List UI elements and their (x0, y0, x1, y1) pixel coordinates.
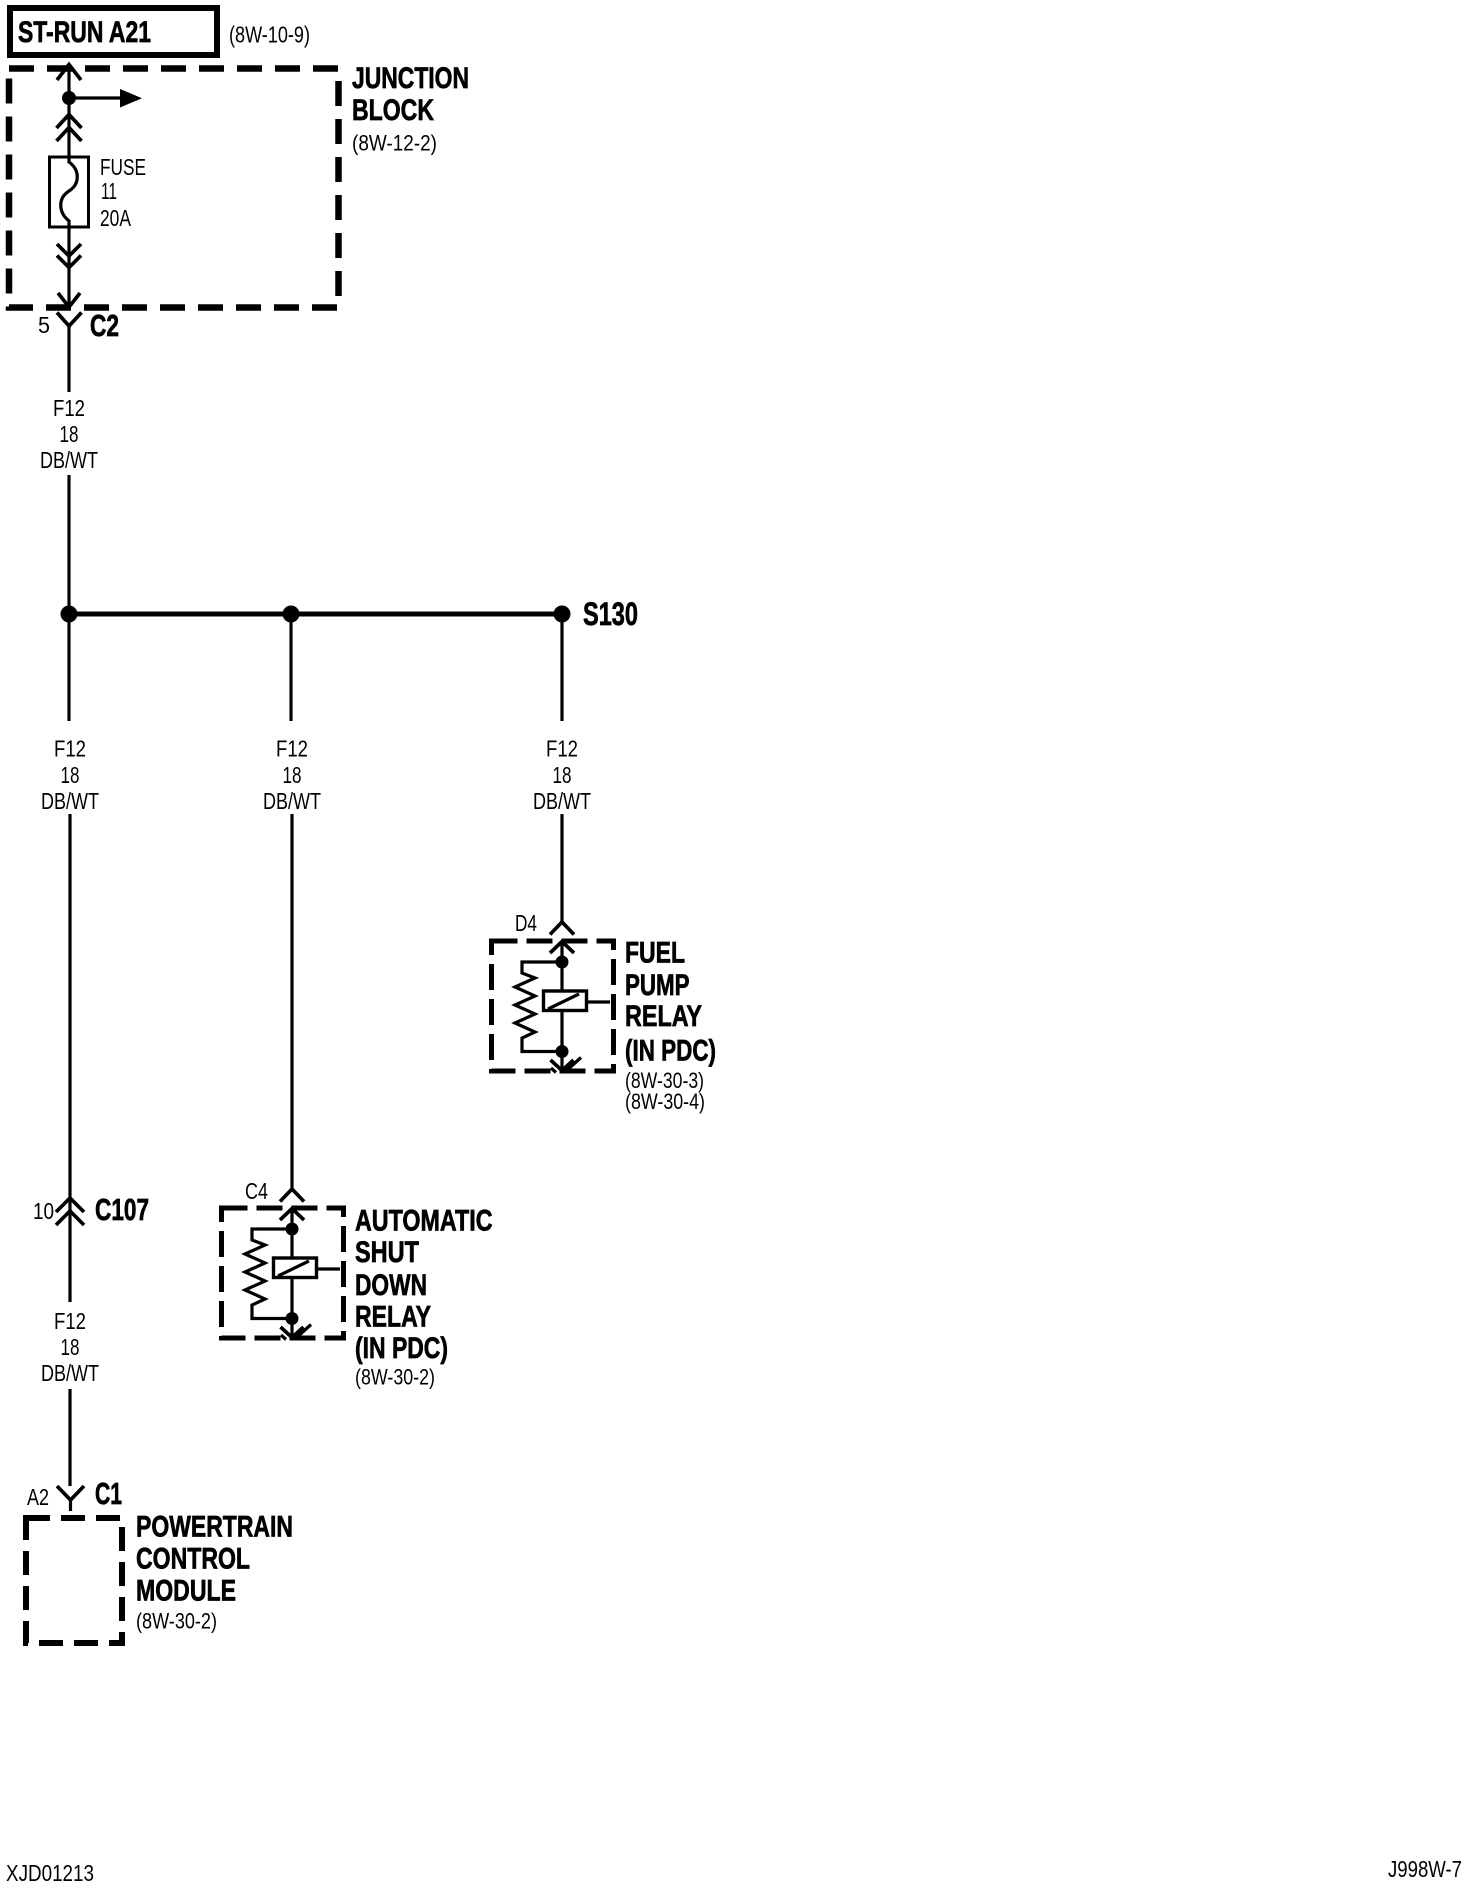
svg-text:(8W-30-2): (8W-30-2) (355, 1365, 435, 1390)
svg-text:F12: F12 (53, 395, 85, 421)
svg-text:DB/WT: DB/WT (40, 447, 98, 473)
svg-text:XJD01213: XJD01213 (6, 1860, 94, 1886)
svg-text:CONTROL: CONTROL (136, 1543, 250, 1576)
svg-text:DB/WT: DB/WT (533, 788, 591, 814)
svg-text:(8W-10-9): (8W-10-9) (229, 22, 310, 48)
svg-text:F12: F12 (54, 1308, 86, 1334)
svg-text:C1: C1 (95, 1476, 122, 1511)
svg-text:MODULE: MODULE (136, 1575, 236, 1608)
svg-text:C4: C4 (245, 1178, 268, 1204)
svg-text:J998W-7: J998W-7 (1388, 1856, 1462, 1882)
svg-text:AUTOMATIC: AUTOMATIC (355, 1205, 493, 1238)
svg-text:SHUT: SHUT (355, 1236, 419, 1269)
svg-text:11: 11 (101, 178, 117, 204)
svg-text:RELAY: RELAY (625, 1000, 702, 1033)
svg-text:F12: F12 (54, 736, 86, 762)
svg-text:18: 18 (60, 421, 79, 447)
svg-text:(8W-30-4): (8W-30-4) (625, 1089, 705, 1114)
svg-text:20A: 20A (100, 205, 131, 231)
svg-text:(8W-12-2): (8W-12-2) (352, 131, 437, 156)
svg-text:(IN PDC): (IN PDC) (355, 1332, 448, 1365)
svg-text:D4: D4 (515, 910, 537, 936)
svg-text:RELAY: RELAY (355, 1301, 431, 1334)
svg-text:C107: C107 (95, 1192, 149, 1227)
svg-text:JUNCTION: JUNCTION (352, 62, 469, 95)
svg-text:F12: F12 (276, 736, 308, 762)
svg-text:DOWN: DOWN (355, 1269, 427, 1302)
svg-text:C2: C2 (90, 308, 119, 343)
svg-text:5: 5 (38, 312, 50, 338)
svg-text:(8W-30-2): (8W-30-2) (136, 1609, 217, 1634)
svg-text:DB/WT: DB/WT (263, 788, 321, 814)
svg-text:DB/WT: DB/WT (41, 1360, 99, 1386)
svg-text:FUEL: FUEL (625, 937, 685, 970)
svg-text:18: 18 (553, 762, 572, 788)
svg-text:18: 18 (61, 1334, 80, 1360)
svg-text:(IN PDC): (IN PDC) (625, 1035, 716, 1068)
svg-text:POWERTRAIN: POWERTRAIN (136, 1511, 293, 1544)
svg-text:PUMP: PUMP (625, 969, 690, 1002)
svg-text:A2: A2 (27, 1484, 49, 1510)
svg-text:10: 10 (33, 1198, 54, 1224)
svg-text:18: 18 (61, 762, 80, 788)
svg-text:BLOCK: BLOCK (352, 94, 434, 127)
svg-text:DB/WT: DB/WT (41, 788, 99, 814)
svg-text:S130: S130 (583, 596, 638, 632)
svg-text:ST-RUN A21: ST-RUN A21 (18, 16, 151, 49)
svg-text:18: 18 (283, 762, 302, 788)
svg-text:F12: F12 (546, 736, 578, 762)
svg-text:FUSE: FUSE (100, 154, 146, 180)
